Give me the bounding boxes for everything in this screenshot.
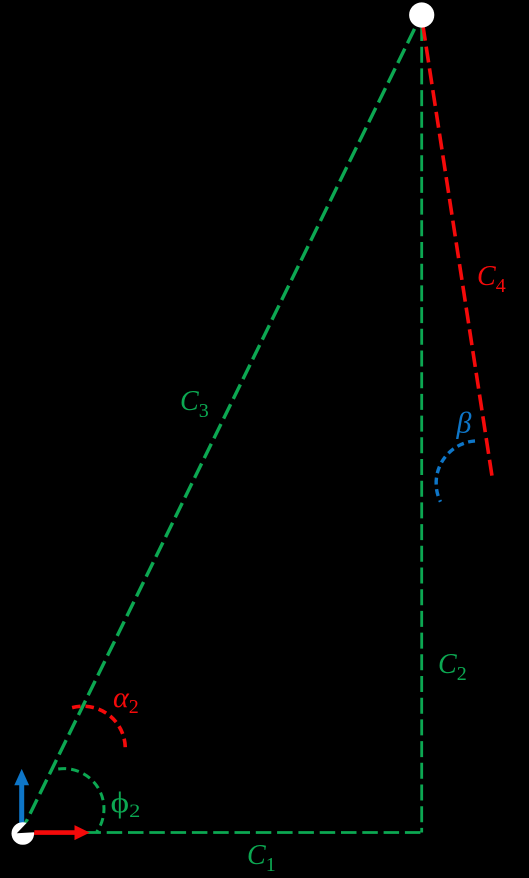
arc alpha2 (red dashed angle arc) xyxy=(72,706,125,748)
svg-text:C3: C3 xyxy=(180,386,209,422)
arc beta (blue dashed angle arc) xyxy=(436,441,475,502)
wire C1 (horizontal green dashed line) xyxy=(22,831,422,834)
svg-text:β: β xyxy=(456,407,472,440)
svg-text:C2: C2 xyxy=(438,649,467,685)
blue arrow (y-axis) xyxy=(14,769,29,833)
svg-text:α2: α2 xyxy=(113,681,139,718)
node origin joint (white circle with black wedge) xyxy=(11,820,34,845)
svg-text:C4: C4 xyxy=(477,261,506,297)
wire C3 (diagonal green dashed line) xyxy=(20,15,421,834)
svg-text:ϕ2: ϕ2 xyxy=(111,786,141,821)
wire C4 (red dashed line) xyxy=(421,15,492,476)
red arrow (x-axis) xyxy=(23,825,90,840)
wire C2 (vertical green dashed line) xyxy=(420,16,423,833)
svg-text:C1: C1 xyxy=(247,840,276,876)
arc phi2 (green dashed angle arc) xyxy=(58,769,104,832)
node top joint (white circle) xyxy=(409,2,434,27)
